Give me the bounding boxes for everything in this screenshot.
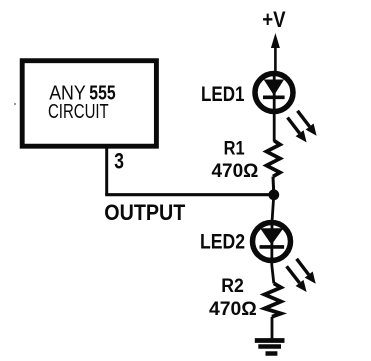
LED1 light arrows xyxy=(288,111,317,143)
svg-text:R1: R1 xyxy=(224,138,245,159)
label OUTPUT xyxy=(104,200,185,225)
LED1 xyxy=(255,74,293,112)
svg-text:470Ω: 470Ω xyxy=(209,299,257,320)
label R2 xyxy=(221,276,244,297)
svg-text:R2: R2 xyxy=(221,276,244,297)
label +V xyxy=(262,7,286,32)
svg-text:OUTPUT: OUTPUT xyxy=(104,200,185,225)
resistor R1 xyxy=(267,141,281,177)
wire node through LED2 to R2 xyxy=(272,195,274,283)
label 470 ohm (R1) xyxy=(212,161,259,182)
label LED2 xyxy=(200,231,245,254)
label CIRCUIT xyxy=(48,101,109,123)
LED2 light arrows xyxy=(287,259,316,292)
wire OUTPUT horizontal to node xyxy=(105,193,274,196)
resistor R2 xyxy=(265,283,282,316)
label ANY 555 xyxy=(49,83,115,105)
label 470 ohm (R2) xyxy=(209,299,257,320)
pin number 3 xyxy=(114,148,124,173)
svg-text:470Ω: 470Ω xyxy=(212,161,259,182)
scan speck xyxy=(14,103,16,105)
node junction dot xyxy=(268,189,279,200)
LED2 xyxy=(253,223,291,261)
svg-text:3: 3 xyxy=(114,148,124,173)
svg-text:LED1: LED1 xyxy=(201,83,245,106)
wire through LED1 to R1 xyxy=(273,74,276,142)
555 box (ANY 555 CIRCUIT block) xyxy=(22,61,156,147)
wire pin 3 from box bottom xyxy=(105,145,108,195)
svg-text:LED2: LED2 xyxy=(200,231,245,254)
svg-text:+V: +V xyxy=(262,7,286,32)
label LED1 xyxy=(201,83,245,106)
wire R2 to ground xyxy=(271,317,274,340)
ground xyxy=(255,341,285,354)
+V supply arrow xyxy=(271,33,280,74)
svg-text:CIRCUIT: CIRCUIT xyxy=(48,101,109,123)
wire R1 to node xyxy=(272,177,276,196)
label R1 xyxy=(224,138,245,159)
